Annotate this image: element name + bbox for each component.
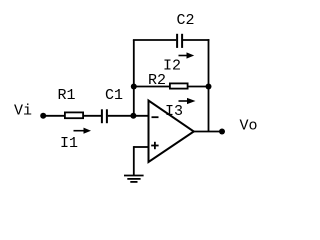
wire non-inverting input to ground <box>134 146 149 148</box>
junction dot left of R2 branch <box>131 84 137 90</box>
svg-text:I3: I3 <box>165 103 183 120</box>
svg-text:C2: C2 <box>177 12 195 29</box>
capacitor C1 <box>101 109 103 123</box>
svg-text:R1: R1 <box>58 87 76 104</box>
input terminal dot <box>40 113 46 119</box>
svg-text:Vo: Vo <box>240 118 258 135</box>
junction dot right of R2 branch <box>206 84 212 90</box>
current arrow I2 <box>179 55 188 57</box>
junction node at inverting input <box>130 113 136 119</box>
wire right vertical feedback to output <box>208 39 210 131</box>
current arrow I1 <box>74 130 85 132</box>
op-amp inverting input minus sign <box>152 116 159 118</box>
wire middle branch through R2 <box>134 86 209 88</box>
wire output <box>194 131 222 133</box>
ground <box>124 175 144 177</box>
op-amp U1 <box>149 101 194 163</box>
op-amp non-inverting input plus sign <box>151 145 158 147</box>
resistor R1 <box>65 112 83 118</box>
wire input Vi to inverting input <box>43 115 101 117</box>
resistor R2 <box>170 83 188 88</box>
svg-text:Vi: Vi <box>14 103 32 120</box>
output terminal dot <box>219 129 225 135</box>
capacitor C2 <box>176 34 178 48</box>
wire top branch to C2 <box>133 39 176 41</box>
svg-text:C1: C1 <box>105 87 123 104</box>
current arrow I3 <box>179 100 189 102</box>
wire left vertical feedback <box>133 40 135 116</box>
svg-text:R2: R2 <box>148 72 166 89</box>
svg-text:I1: I1 <box>60 135 78 152</box>
